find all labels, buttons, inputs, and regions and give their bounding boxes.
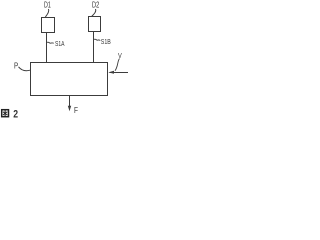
svg-text:D2: D2 — [92, 1, 100, 10]
svg-text:F: F — [74, 105, 78, 115]
svg-text:V: V — [118, 53, 122, 60]
detector box D2 — [89, 17, 101, 32]
leader from P to block — [19, 67, 31, 71]
svg-text:S1A: S1A — [55, 39, 65, 48]
leader from V to wire V — [115, 59, 120, 71]
svg-text:P: P — [14, 62, 18, 71]
leader squiggle for S1B — [94, 39, 100, 40]
wire F (output line below block P) — [69, 96, 71, 110]
arrowhead V pointing left into block P — [108, 71, 114, 74]
leader squiggle for S1A — [47, 42, 54, 43]
detector box D1 — [42, 18, 55, 33]
leader from D1 to box D1 — [45, 9, 49, 17]
wire S1A from box D1 to block P — [46, 33, 48, 63]
wire S1B from box D2 to block P — [93, 32, 95, 63]
svg-text:2: 2 — [13, 108, 18, 120]
leader from D2 to box D2 — [92, 9, 96, 16]
svg-text:D1: D1 — [44, 1, 51, 10]
figure caption kanji ZU (drawn) — [2, 110, 9, 117]
wire V (input line from right) — [110, 72, 129, 74]
arrowhead F pointing down — [68, 106, 71, 111]
block P (main rectangle) — [31, 63, 108, 96]
svg-text:S1B: S1B — [101, 37, 111, 46]
